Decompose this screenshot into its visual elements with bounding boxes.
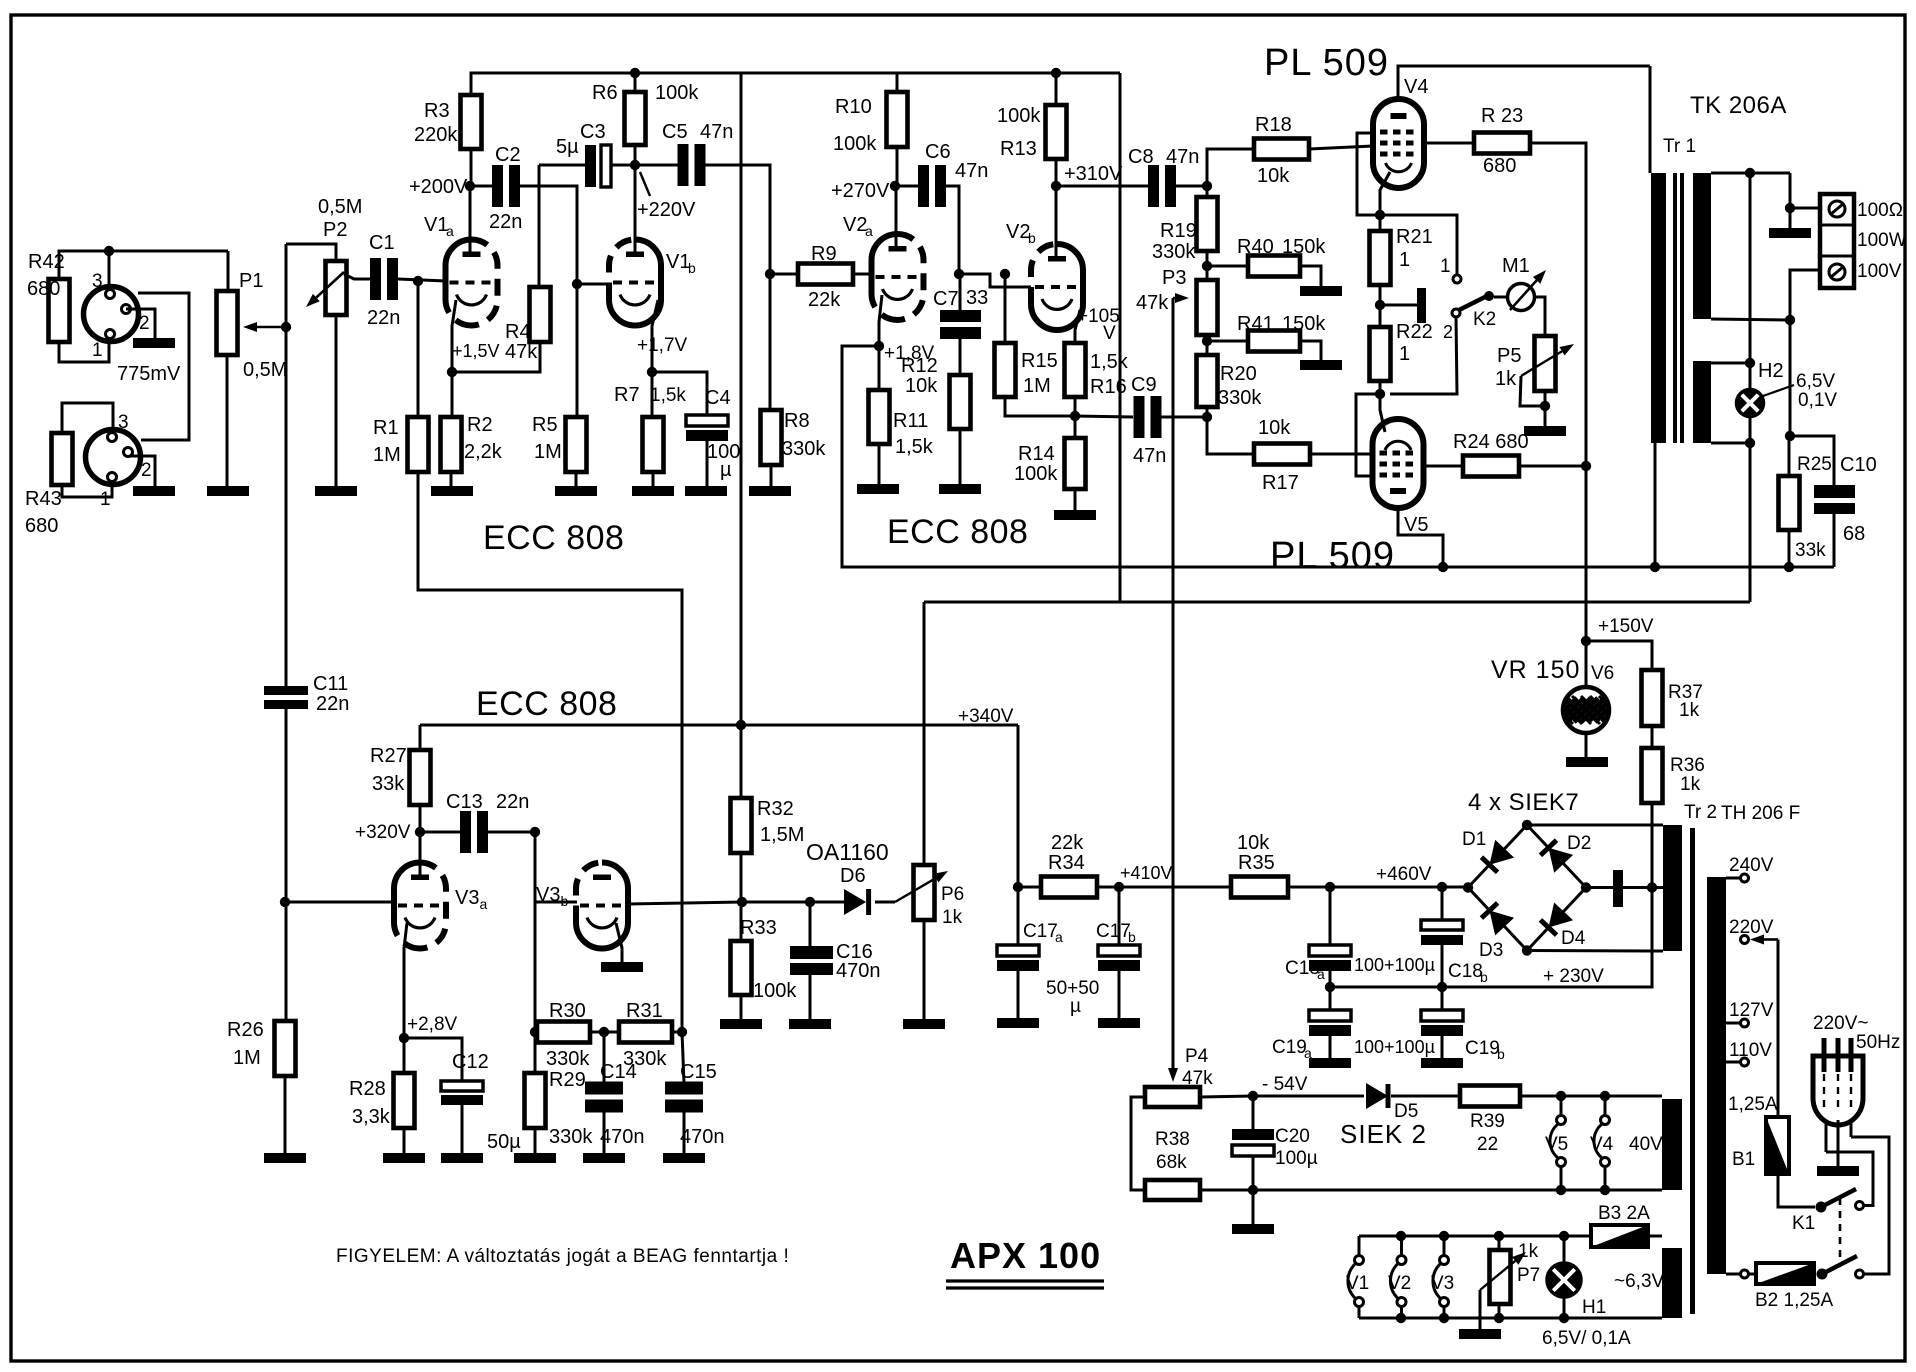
svg-text:22: 22: [1477, 1134, 1498, 1155]
svg-text:330k: 330k: [546, 1048, 590, 1070]
svg-text:+1,8V: +1,8V: [884, 343, 935, 364]
svg-text:- 54V: - 54V: [1262, 1074, 1308, 1095]
svg-text:1M: 1M: [534, 441, 562, 463]
svg-text:1k: 1k: [1680, 774, 1701, 795]
svg-text:100V: 100V: [1857, 261, 1902, 282]
svg-text:PL 509: PL 509: [1270, 535, 1395, 577]
svg-text:4 x SIEK7: 4 x SIEK7: [1468, 789, 1579, 816]
svg-text:V1: V1: [1346, 1273, 1369, 1294]
svg-text:P4: P4: [1185, 1046, 1209, 1067]
svg-text:R13: R13: [1000, 138, 1037, 160]
svg-text:R21: R21: [1396, 226, 1433, 248]
svg-text:ECC 808: ECC 808: [887, 513, 1028, 551]
svg-text:150k: 150k: [1282, 236, 1326, 258]
svg-text:R20: R20: [1220, 363, 1257, 385]
svg-text:V2: V2: [1388, 1273, 1411, 1294]
svg-text:R11: R11: [893, 410, 928, 432]
svg-text:R8: R8: [784, 410, 810, 432]
svg-text:22n: 22n: [367, 307, 400, 329]
svg-text:1M: 1M: [1023, 375, 1051, 397]
svg-text:68: 68: [1843, 523, 1865, 545]
svg-text:R33: R33: [740, 917, 777, 939]
svg-text:100µ: 100µ: [1275, 1148, 1318, 1169]
svg-text:R26: R26: [227, 1019, 264, 1041]
svg-text:C9: C9: [1131, 374, 1157, 396]
svg-text:P3: P3: [1162, 267, 1186, 289]
svg-text:V: V: [1103, 323, 1116, 344]
svg-text:a: a: [865, 223, 873, 239]
svg-text:C15: C15: [680, 1061, 717, 1083]
svg-text:68k: 68k: [1156, 1152, 1187, 1173]
svg-text:1,5k: 1,5k: [1090, 351, 1129, 373]
svg-text:100k: 100k: [753, 980, 797, 1002]
svg-text:470n: 470n: [680, 1126, 725, 1148]
svg-text:R10: R10: [835, 96, 872, 118]
svg-text:100+100µ: 100+100µ: [1354, 1037, 1435, 1057]
svg-text:150k: 150k: [1282, 313, 1326, 335]
svg-text:C19: C19: [1465, 1038, 1500, 1059]
svg-text:330k: 330k: [782, 438, 826, 460]
svg-text:µ: µ: [720, 459, 732, 481]
svg-text:+310V: +310V: [1064, 163, 1123, 185]
svg-text:Tr 1: Tr 1: [1663, 136, 1696, 157]
svg-text:775mV: 775mV: [117, 363, 181, 385]
svg-text:680: 680: [25, 515, 58, 537]
svg-text:0,5M: 0,5M: [243, 359, 287, 381]
svg-text:C4: C4: [705, 387, 731, 409]
svg-text:R34: R34: [1048, 852, 1085, 874]
svg-text:2,2k: 2,2k: [464, 441, 503, 463]
svg-text:C13: C13: [446, 791, 483, 813]
svg-text:C14: C14: [600, 1061, 637, 1083]
svg-text:+200V: +200V: [409, 176, 468, 198]
svg-text:330k: 330k: [1152, 241, 1196, 263]
svg-text:+410V: +410V: [1120, 863, 1173, 883]
svg-text:10k: 10k: [1257, 165, 1290, 187]
svg-text:B1: B1: [1732, 1149, 1755, 1170]
svg-text:C1: C1: [369, 232, 395, 254]
svg-text:P2: P2: [323, 219, 347, 241]
svg-text:K2: K2: [1473, 309, 1496, 330]
svg-text:R2: R2: [467, 414, 493, 436]
svg-text:1,5k: 1,5k: [895, 436, 934, 458]
svg-text:C10: C10: [1840, 454, 1877, 476]
svg-text:220k: 220k: [414, 124, 458, 146]
svg-text:22n: 22n: [496, 791, 529, 813]
svg-text:K1: K1: [1792, 1213, 1815, 1234]
svg-text:P5: P5: [1497, 345, 1521, 367]
svg-text:B3 2A: B3 2A: [1598, 1203, 1650, 1224]
svg-text:1k: 1k: [1495, 368, 1517, 390]
svg-text:1M: 1M: [233, 1047, 261, 1069]
svg-text:C5: C5: [662, 121, 688, 143]
svg-text:3,3k: 3,3k: [352, 1106, 391, 1128]
svg-text:1: 1: [92, 340, 103, 361]
svg-text:C18: C18: [1448, 961, 1483, 982]
svg-text:R29: R29: [549, 1069, 586, 1091]
svg-text:Tr 2: Tr 2: [1684, 802, 1717, 823]
svg-text:0,5M: 0,5M: [318, 196, 362, 218]
svg-text:10k: 10k: [1258, 417, 1291, 439]
svg-text:10k: 10k: [905, 375, 938, 397]
svg-text:+340V: +340V: [958, 706, 1014, 727]
svg-text:47n: 47n: [700, 121, 733, 143]
svg-text:47n: 47n: [1166, 146, 1199, 168]
svg-text:M1: M1: [1502, 255, 1530, 277]
svg-text:1: 1: [100, 489, 111, 510]
svg-text:220V: 220V: [1729, 917, 1774, 938]
svg-text:2: 2: [139, 313, 150, 334]
svg-text:40V: 40V: [1629, 1134, 1663, 1155]
svg-text:33k: 33k: [372, 773, 405, 795]
svg-text:R 23: R 23: [1481, 105, 1523, 127]
svg-text:V4: V4: [1404, 76, 1428, 98]
svg-text:R17: R17: [1262, 472, 1299, 494]
svg-text:D3: D3: [1479, 940, 1503, 961]
svg-text:D2: D2: [1567, 833, 1591, 854]
svg-text:R6: R6: [592, 82, 618, 104]
svg-text:0,1V: 0,1V: [1798, 390, 1837, 411]
svg-text:B2 1,25A: B2 1,25A: [1755, 1290, 1833, 1311]
svg-text:470n: 470n: [600, 1126, 645, 1148]
svg-text:R41: R41: [1237, 313, 1274, 335]
svg-text:P6: P6: [941, 884, 964, 905]
svg-text:C17: C17: [1023, 921, 1058, 942]
svg-text:R30: R30: [549, 1000, 586, 1022]
svg-text:H2: H2: [1758, 360, 1784, 382]
svg-text:C19: C19: [1272, 1037, 1307, 1058]
svg-text:R32: R32: [757, 798, 794, 820]
svg-text:22n: 22n: [489, 211, 522, 233]
svg-text:D1: D1: [1462, 829, 1486, 850]
svg-text:680: 680: [1483, 155, 1516, 177]
svg-text:6,5V: 6,5V: [1796, 371, 1835, 392]
svg-text:1k: 1k: [942, 907, 963, 928]
svg-text:V4: V4: [1590, 1134, 1614, 1155]
svg-text:2: 2: [1443, 322, 1453, 342]
svg-text:R1: R1: [373, 417, 399, 439]
svg-text:R18: R18: [1255, 114, 1292, 136]
svg-text:50µ: 50µ: [487, 1131, 521, 1153]
svg-text:V2: V2: [1006, 221, 1030, 243]
svg-text:C6: C6: [925, 141, 951, 163]
svg-text:1: 1: [1440, 256, 1451, 277]
svg-text:330k: 330k: [549, 1126, 593, 1148]
svg-text:OA1160: OA1160: [806, 839, 889, 865]
svg-text:100k: 100k: [833, 133, 877, 155]
svg-text:R27: R27: [370, 745, 407, 767]
svg-text:TH 206 F: TH 206 F: [1721, 803, 1800, 824]
svg-text:22n: 22n: [316, 693, 349, 715]
svg-text:R14: R14: [1018, 443, 1055, 465]
svg-text:R3: R3: [424, 100, 450, 122]
svg-text:100k: 100k: [1014, 463, 1058, 485]
svg-text:R22: R22: [1396, 321, 1433, 343]
svg-text:R4: R4: [505, 321, 531, 343]
svg-text:+2,8V: +2,8V: [407, 1014, 458, 1035]
svg-text:47n: 47n: [1133, 445, 1166, 467]
svg-text:R19: R19: [1160, 220, 1197, 242]
svg-text:100Ω: 100Ω: [1857, 200, 1903, 221]
svg-text:1M: 1M: [373, 444, 401, 466]
svg-text:V1: V1: [666, 251, 690, 273]
svg-text:+320V: +320V: [355, 822, 411, 843]
svg-text:1: 1: [1399, 249, 1410, 271]
svg-text:+220V: +220V: [637, 199, 696, 221]
svg-text:SIEK 2: SIEK 2: [1340, 1119, 1427, 1149]
svg-text:2: 2: [141, 460, 152, 481]
svg-text:R40: R40: [1237, 236, 1274, 258]
svg-text:V5: V5: [1545, 1134, 1568, 1155]
svg-text:b: b: [1497, 1046, 1505, 1062]
svg-text:D6: D6: [840, 865, 866, 887]
svg-text:1,5M: 1,5M: [760, 824, 804, 846]
svg-text:V6: V6: [1591, 663, 1614, 684]
svg-text:R35: R35: [1238, 852, 1275, 874]
svg-text:C17: C17: [1096, 921, 1131, 942]
svg-text:D4: D4: [1561, 928, 1586, 949]
svg-text:22k: 22k: [1051, 832, 1084, 854]
svg-text:V1: V1: [424, 214, 448, 236]
svg-text:33: 33: [966, 287, 988, 309]
svg-text:R7: R7: [614, 384, 640, 406]
svg-text:H1: H1: [1582, 1297, 1606, 1318]
svg-text:APX 100: APX 100: [950, 1235, 1101, 1276]
svg-text:47k: 47k: [505, 341, 538, 363]
svg-text:a: a: [1317, 966, 1325, 982]
svg-text:C2: C2: [495, 144, 521, 166]
svg-text:3: 3: [118, 412, 129, 433]
svg-text:R9: R9: [811, 243, 837, 265]
svg-text:C3: C3: [580, 121, 606, 143]
svg-text:µ: µ: [1070, 996, 1081, 1017]
svg-text:110V: 110V: [1729, 1040, 1772, 1061]
svg-text:b: b: [688, 260, 696, 276]
svg-text:C8: C8: [1128, 146, 1154, 168]
svg-text:+150V: +150V: [1598, 616, 1654, 637]
svg-text:C18: C18: [1285, 958, 1320, 979]
svg-text:C7: C7: [933, 288, 959, 310]
svg-text:ECC 808: ECC 808: [483, 519, 624, 557]
svg-text:240V: 240V: [1729, 855, 1774, 876]
svg-text:R31: R31: [626, 1000, 663, 1022]
svg-text:330k: 330k: [1218, 387, 1262, 409]
svg-text:127V: 127V: [1729, 1000, 1774, 1021]
svg-text:R24 680: R24 680: [1453, 431, 1529, 453]
svg-text:a: a: [446, 223, 454, 239]
svg-text:R36: R36: [1670, 755, 1705, 776]
svg-text:V2: V2: [843, 214, 867, 236]
svg-text:6,5V/ 0,1A: 6,5V/ 0,1A: [1542, 1328, 1631, 1349]
svg-text:a: a: [1055, 929, 1063, 945]
svg-text:P7: P7: [1517, 1265, 1540, 1286]
svg-text:~6,3V: ~6,3V: [1614, 1271, 1665, 1292]
svg-text:TK 206A: TK 206A: [1690, 92, 1787, 119]
svg-text:R25: R25: [1797, 454, 1832, 475]
svg-text:+1,5V: +1,5V: [452, 341, 500, 361]
svg-text:C11: C11: [313, 673, 348, 695]
svg-text:47n: 47n: [955, 160, 988, 182]
svg-text:50Hz: 50Hz: [1856, 1032, 1900, 1053]
svg-text:V3: V3: [1431, 1273, 1454, 1294]
svg-text:1,25A: 1,25A: [1728, 1094, 1778, 1115]
svg-text:470n: 470n: [836, 960, 881, 982]
svg-text:1: 1: [1399, 343, 1410, 365]
svg-text:33k: 33k: [1795, 540, 1826, 561]
svg-text:b: b: [1028, 230, 1036, 246]
svg-text:R15: R15: [1021, 350, 1058, 372]
svg-text:R5: R5: [532, 414, 558, 436]
svg-text:100W: 100W: [1857, 230, 1907, 251]
svg-text:FIGYELEM: A változtatás jog: FIGYELEM: A változtatás jogát a BEAG fen…: [336, 1246, 789, 1267]
svg-text:+270V: +270V: [831, 180, 890, 202]
svg-text:ECC 808: ECC 808: [476, 685, 617, 723]
svg-text:22k: 22k: [808, 289, 841, 311]
svg-text:47k: 47k: [1136, 292, 1169, 314]
svg-text:R28: R28: [349, 1078, 386, 1100]
svg-text:5µ: 5µ: [556, 136, 579, 158]
svg-text:680: 680: [27, 278, 60, 300]
svg-text:+ 230V: + 230V: [1543, 966, 1604, 987]
svg-text:C20: C20: [1275, 1126, 1310, 1147]
svg-text:1,5k: 1,5k: [650, 385, 686, 406]
svg-text:1k: 1k: [1679, 700, 1700, 721]
svg-text:R39: R39: [1470, 1111, 1505, 1132]
svg-text:PL 509: PL 509: [1264, 42, 1389, 84]
svg-text:R38: R38: [1155, 1129, 1190, 1150]
svg-text:R16: R16: [1090, 376, 1127, 398]
svg-text:100k: 100k: [655, 82, 699, 104]
svg-text:3: 3: [92, 271, 103, 292]
svg-text:100+100µ: 100+100µ: [1354, 955, 1435, 975]
svg-text:+460V: +460V: [1376, 864, 1432, 885]
svg-text:220V~: 220V~: [1813, 1013, 1868, 1034]
svg-text:C12: C12: [452, 1051, 489, 1073]
svg-text:VR 150: VR 150: [1491, 656, 1580, 684]
svg-text:+1,7V: +1,7V: [637, 335, 688, 356]
svg-text:100k: 100k: [997, 105, 1041, 127]
svg-text:10k: 10k: [1237, 832, 1270, 854]
svg-text:b: b: [1480, 969, 1488, 985]
svg-text:P1: P1: [239, 270, 263, 292]
svg-text:b: b: [1128, 929, 1136, 945]
svg-text:V5: V5: [1404, 514, 1428, 536]
svg-text:R43: R43: [25, 488, 62, 510]
